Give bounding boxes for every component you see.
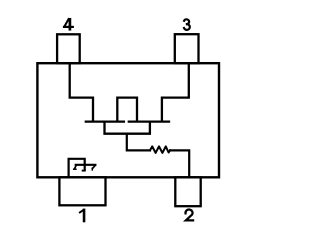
protection diodes middle foot: [83, 170, 85, 172]
wire pin 4 to transistor left electrode: [70, 63, 93, 120]
label pin 4: [64, 19, 73, 29]
protection diode left arrow: [75, 165, 77, 169]
pin 4 lead: [57, 34, 80, 63]
transistor channel right segment: [129, 120, 169, 122]
transistor top bridge electrode: [117, 98, 137, 121]
wire pin 3 to transistor right electrode: [162, 63, 189, 120]
protection diodes bar: [76, 164, 96, 166]
transistor channel left segment: [86, 120, 124, 122]
pin 2 lead: [175, 177, 200, 206]
label pin 2: [185, 210, 193, 221]
wire resistor to pin 2: [170, 150, 189, 177]
protection diodes lead from source rail: [69, 159, 85, 178]
label pin 1: [80, 210, 84, 221]
wire gate tap to resistor: [127, 134, 150, 151]
protection diode right tick: [91, 168, 93, 170]
protection diode right arrow: [92, 165, 95, 168]
label pin 3: [184, 19, 190, 30]
transistor bottom cup electrode (gate): [105, 122, 150, 134]
pin 3 lead: [175, 34, 199, 63]
resistor R (gate series resistor): [150, 146, 170, 153]
pin 1 lead (wide): [59, 177, 105, 205]
package outline (SOT143 body): [37, 63, 219, 177]
protection diode left foot: [74, 168, 76, 170]
